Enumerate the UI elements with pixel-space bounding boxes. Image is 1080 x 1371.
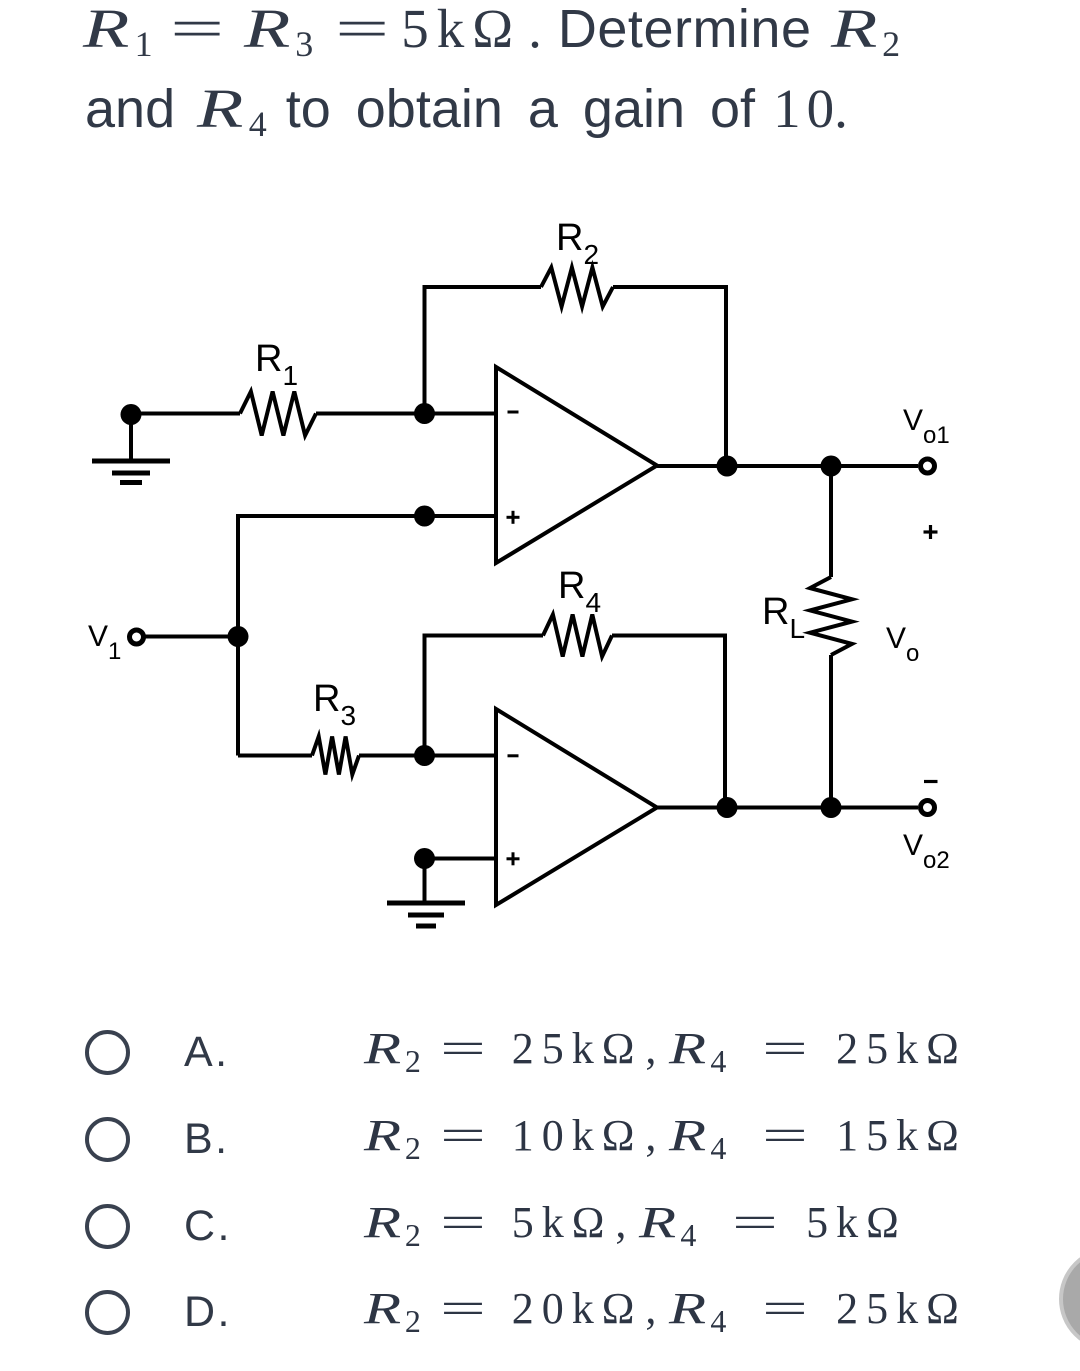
- wire: [829, 655, 833, 808]
- wire: [657, 464, 918, 468]
- op-amp U1 non-inverting pin mark: [507, 511, 520, 524]
- terminal Vo1: [921, 459, 935, 473]
- op-amp U1: [496, 367, 657, 563]
- node: op2 non-inverting junction: [414, 848, 435, 869]
- svg-text:R2: R2: [556, 217, 599, 270]
- resistor R3: [312, 737, 359, 775]
- node: output Vo1 junction: [717, 456, 738, 477]
- node: op1 non-inverting dot: [414, 506, 435, 527]
- node: op1 inverting input junction: [414, 403, 435, 424]
- svg-text:R1: R1: [255, 338, 298, 391]
- node: input ground junction: [121, 404, 142, 425]
- svg-text:V1: V1: [88, 620, 121, 665]
- resistor R4: [543, 615, 612, 657]
- option A: [0, 0, 1, 1]
- op-amp U2: [496, 709, 657, 905]
- svg-text:Vo2: Vo2: [903, 829, 950, 874]
- wire: [238, 516, 496, 756]
- node: RL bottom junction: [821, 797, 842, 818]
- wire: [425, 287, 542, 414]
- ground GND1: [92, 414, 170, 483]
- node: op2 inverting junction: [414, 745, 435, 766]
- option D: [0, 0, 1, 1]
- wire: [613, 287, 726, 466]
- resistor R2: [541, 268, 613, 307]
- node: output Vo2 junction: [717, 797, 738, 818]
- question text line 1: [83, 0, 900, 60]
- wire: [657, 806, 918, 810]
- op-amp U2 non-inverting pin mark: [507, 852, 520, 865]
- op-amp U1 inverting pin mark: [508, 411, 519, 414]
- option C: [0, 0, 1, 1]
- wire: [612, 636, 725, 809]
- wire: [144, 635, 238, 639]
- question text line 2: [85, 77, 848, 140]
- node: V1 junction: [228, 626, 249, 647]
- svg-text:RL: RL: [762, 591, 805, 644]
- wire: [131, 412, 240, 416]
- option B: [0, 0, 1, 1]
- svg-text:R3: R3: [313, 678, 356, 731]
- wire: [316, 412, 496, 416]
- svg-text:Vo: Vo: [886, 622, 919, 667]
- op-amp U2 inverting pin mark: [508, 754, 519, 757]
- terminal Vo2: [921, 801, 935, 815]
- label − polarity: [924, 780, 938, 783]
- svg-text:Vo1: Vo1: [903, 404, 950, 449]
- wire: [359, 754, 496, 758]
- wire: [238, 754, 312, 758]
- terminal V1: [130, 630, 144, 644]
- wire: [425, 636, 544, 756]
- floating action button (partially visible): [1059, 1247, 1080, 1351]
- ground GND2: [387, 859, 465, 927]
- node: RL top junction: [821, 456, 842, 477]
- wire: [829, 466, 833, 577]
- wire: [425, 857, 497, 861]
- svg-text:R4: R4: [558, 565, 601, 618]
- resistor RL: [810, 577, 852, 655]
- resistor R1: [240, 392, 316, 436]
- label + polarity: [924, 525, 938, 539]
